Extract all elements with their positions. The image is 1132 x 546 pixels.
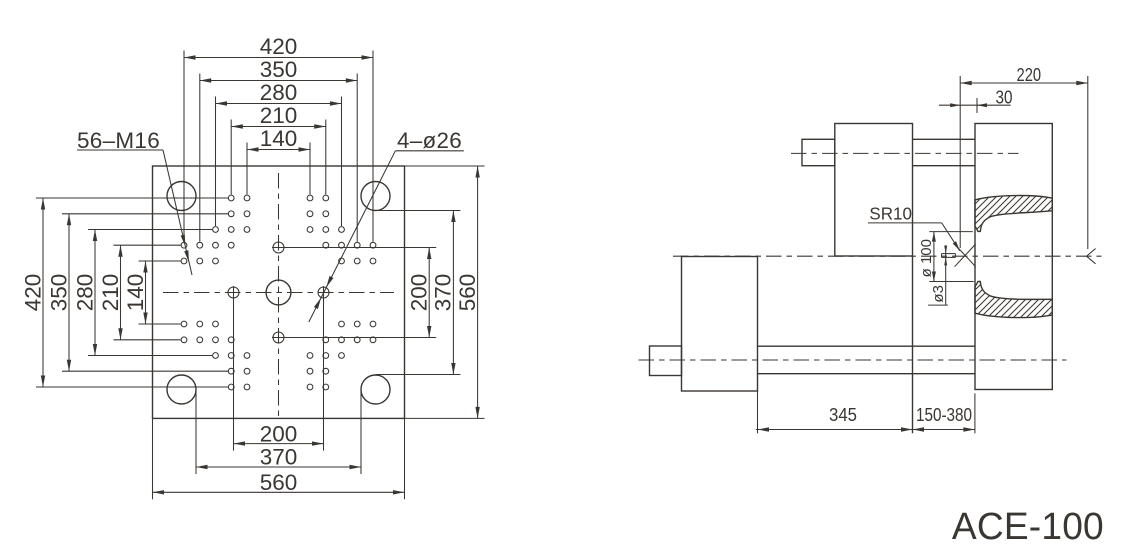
svg-text:345: 345 — [829, 405, 857, 425]
mold section upper half (hatched) — [790, 185, 1132, 330]
nozzle contact cross mark — [955, 244, 976, 267]
injection unit centerline — [791, 152, 1019, 154]
dimension 210 top — [231, 103, 326, 195]
stationary platen side view — [975, 124, 1052, 390]
svg-text:150-380: 150-380 — [916, 405, 972, 425]
dimension 350 top — [200, 57, 357, 242]
dimension 370 right — [376, 211, 461, 375]
svg-text:350: 350 — [46, 274, 71, 312]
dimension 420 left — [20, 198, 228, 387]
svg-text:56–M16: 56–M16 — [77, 128, 160, 153]
svg-text:280: 280 — [72, 274, 97, 312]
svg-text:200: 200 — [260, 421, 298, 446]
svg-text:30: 30 — [996, 88, 1013, 108]
center locating hole — [266, 280, 291, 305]
vertical centerline — [278, 173, 280, 416]
injection housing block — [835, 124, 913, 257]
svg-text:ACE-100: ACE-100 — [952, 506, 1104, 546]
tie bar bottom line — [758, 373, 976, 375]
dimension 200 right — [272, 248, 436, 338]
svg-text:350: 350 — [260, 57, 298, 82]
dimension 370 bottom — [196, 390, 361, 474]
svg-text:210: 210 — [98, 274, 123, 312]
housing right edge extended — [912, 256, 914, 433]
label 4-ø26 with leader — [309, 128, 464, 322]
svg-text:560: 560 — [260, 470, 298, 495]
ejector hole bottom (ø26) — [273, 332, 284, 343]
ejector hole right (ø26) — [318, 287, 329, 298]
mold section lower half (hatched) — [790, 185, 1132, 330]
svg-text:370: 370 — [260, 445, 298, 470]
dimension 560 bottom — [153, 418, 405, 499]
svg-text:280: 280 — [260, 80, 298, 105]
svg-text:220: 220 — [1017, 65, 1042, 85]
dimension ø100 — [918, 232, 974, 282]
svg-text:370: 370 — [431, 274, 456, 312]
dimension 140 left — [123, 261, 181, 324]
svg-text:560: 560 — [455, 274, 480, 312]
dimension 345 — [756, 391, 913, 433]
tie bar top line — [758, 345, 976, 347]
tie bar hole top-left — [167, 182, 196, 211]
dimension 420 top — [184, 34, 373, 242]
svg-text:ø 100: ø 100 — [918, 239, 935, 277]
tie bar hole top-right — [361, 182, 390, 211]
tie bar hole bottom-right — [361, 375, 390, 404]
svg-text:ø3: ø3 — [930, 285, 947, 303]
svg-text:140: 140 — [123, 274, 148, 312]
dimension 350 left — [46, 214, 228, 371]
svg-text:140: 140 — [260, 126, 298, 151]
label SR10 with leader — [868, 203, 960, 251]
svg-text:4–ø26: 4–ø26 — [397, 128, 462, 153]
lower cylinder small block — [650, 346, 682, 376]
main machine centerline — [673, 255, 1102, 257]
label 56-M16 with leader — [77, 128, 192, 275]
dimension 280 left — [72, 230, 212, 356]
dimension ø3 nozzle orifice — [928, 245, 955, 305]
dimension 220 — [960, 65, 1088, 249]
dimension 560 right — [405, 166, 485, 418]
dimension 210 left — [98, 245, 181, 340]
centerline end arrow — [1087, 249, 1096, 264]
lower cylinder body — [682, 257, 758, 392]
svg-text:210: 210 — [260, 103, 298, 128]
svg-text:SR10: SR10 — [869, 203, 912, 223]
ejector hole top (ø26) — [273, 242, 284, 253]
svg-text:420: 420 — [20, 274, 45, 312]
dimension 30 — [939, 88, 1013, 114]
horizontal centerline — [163, 292, 394, 294]
barrel bottom line — [913, 165, 976, 167]
M16 mounting holes (56x) — [181, 195, 376, 390]
dimension 280 top — [216, 80, 342, 226]
svg-text:200: 200 — [407, 274, 432, 312]
platen plate outline (front view) — [153, 166, 405, 418]
dimension 200 bottom — [234, 286, 324, 451]
lower cylinder centerline — [639, 359, 1067, 361]
tie bar hole bottom-left — [167, 375, 196, 404]
injection drive block — [802, 139, 835, 165]
dimension 140 top — [247, 126, 310, 195]
barrel top line — [913, 138, 976, 140]
ejector hole left (ø26) — [228, 287, 239, 298]
dimension 150-380 — [913, 393, 975, 433]
svg-text:420: 420 — [260, 34, 298, 59]
